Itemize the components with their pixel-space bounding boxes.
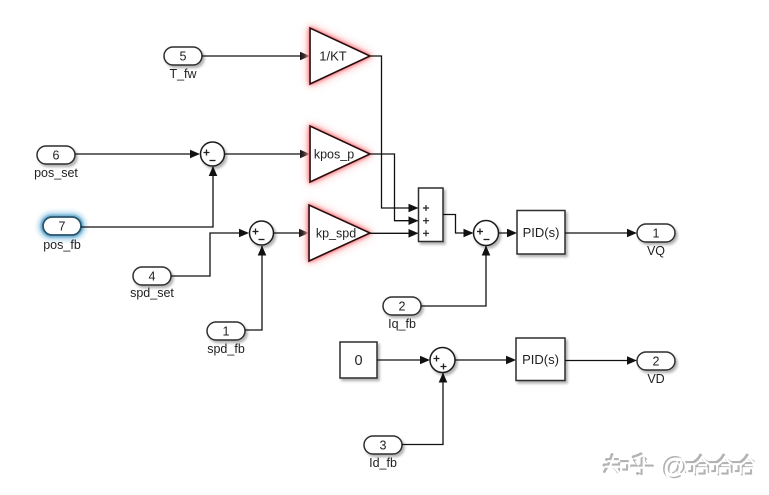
- wire port4 to sum S2: [171, 229, 249, 276]
- wire S2 to kp_spd: [274, 229, 310, 238]
- svg-text:2: 2: [399, 300, 406, 314]
- sum S3 (+ -): [474, 221, 499, 246]
- gain kp_spd: [309, 205, 370, 261]
- wire port7 to sum S1 bottom: [81, 166, 217, 227]
- wire port3 to sum S4 bottom: [402, 373, 447, 445]
- input port 7 pos_fb (selected, blue halo): [40, 214, 84, 252]
- svg-text:2: 2: [653, 355, 660, 369]
- input port 3 Id_fb: [364, 436, 402, 470]
- svg-text:T_fw: T_fw: [169, 67, 197, 81]
- svg-text:PID(s): PID(s): [523, 225, 560, 240]
- svg-text:spd_set: spd_set: [130, 286, 174, 300]
- svg-text:1: 1: [653, 227, 660, 241]
- svg-text:0: 0: [354, 353, 362, 369]
- input port 1 spd_fb: [207, 322, 245, 356]
- svg-text:PID(s): PID(s): [522, 352, 559, 367]
- svg-text:1: 1: [223, 325, 230, 339]
- watermark zhihu @hahaha (hand drawn glyphs): [604, 453, 755, 483]
- sum S1 (+ -): [201, 142, 225, 166]
- PID controller U2 PID(s): [516, 338, 565, 381]
- svg-text:3: 3: [380, 439, 387, 453]
- svg-text:kpos_p: kpos_p: [314, 148, 354, 162]
- svg-text:pos_fb: pos_fb: [43, 238, 81, 252]
- svg-text:5: 5: [180, 50, 187, 64]
- wire S1 to kpos_p: [225, 150, 311, 159]
- gain 1/KT: [310, 28, 370, 84]
- wire PID1 to output VQ: [565, 229, 637, 238]
- svg-text:spd_fb: spd_fb: [207, 342, 245, 356]
- wire adder to sum S3: [443, 215, 474, 238]
- adder block (+++): [419, 188, 444, 242]
- svg-text:Iq_fb: Iq_fb: [388, 317, 416, 331]
- svg-text:7: 7: [59, 220, 66, 234]
- wire S4 to PID2: [455, 356, 516, 365]
- wire port2 to sum S3 bottom: [421, 246, 490, 307]
- wire port5 to 1/KT: [202, 52, 310, 61]
- svg-text:4: 4: [149, 270, 156, 284]
- svg-text:pos_set: pos_set: [34, 166, 78, 180]
- sum S4 (+ +): [430, 348, 455, 373]
- input port 2 Iq_fb: [383, 297, 421, 331]
- wire PID2 to output VD: [565, 356, 637, 365]
- wire port1 to sum S2 bottom: [245, 246, 266, 331]
- svg-text:VD: VD: [647, 372, 664, 386]
- wire S3 to PID1: [499, 229, 518, 238]
- svg-text:6: 6: [53, 149, 60, 163]
- wire kpos_p to adder input2: [370, 154, 419, 225]
- output port 2 VD: [637, 352, 675, 386]
- wire kp_spd to adder input3: [370, 229, 419, 238]
- output port 1 VQ: [637, 224, 675, 258]
- wire constant to sum S4: [377, 356, 430, 365]
- input port 5 T_fw: [164, 47, 202, 81]
- svg-text:1/KT: 1/KT: [319, 49, 347, 64]
- svg-text:kp_spd: kp_spd: [316, 227, 356, 241]
- sum S2 (+ -): [250, 221, 274, 245]
- input port 4 spd_set: [130, 267, 174, 300]
- wire 1/KT to adder input1: [370, 56, 419, 212]
- input port 6 pos_set: [34, 146, 78, 180]
- wire port6 to sum S1: [75, 150, 200, 159]
- svg-text:VQ: VQ: [647, 244, 665, 258]
- gain kpos_p: [310, 126, 370, 182]
- constant block 0: [340, 342, 377, 378]
- svg-text:@: @: [663, 455, 689, 483]
- PID controller U1 PID(s): [517, 211, 565, 255]
- svg-text:Id_fb: Id_fb: [369, 456, 397, 470]
